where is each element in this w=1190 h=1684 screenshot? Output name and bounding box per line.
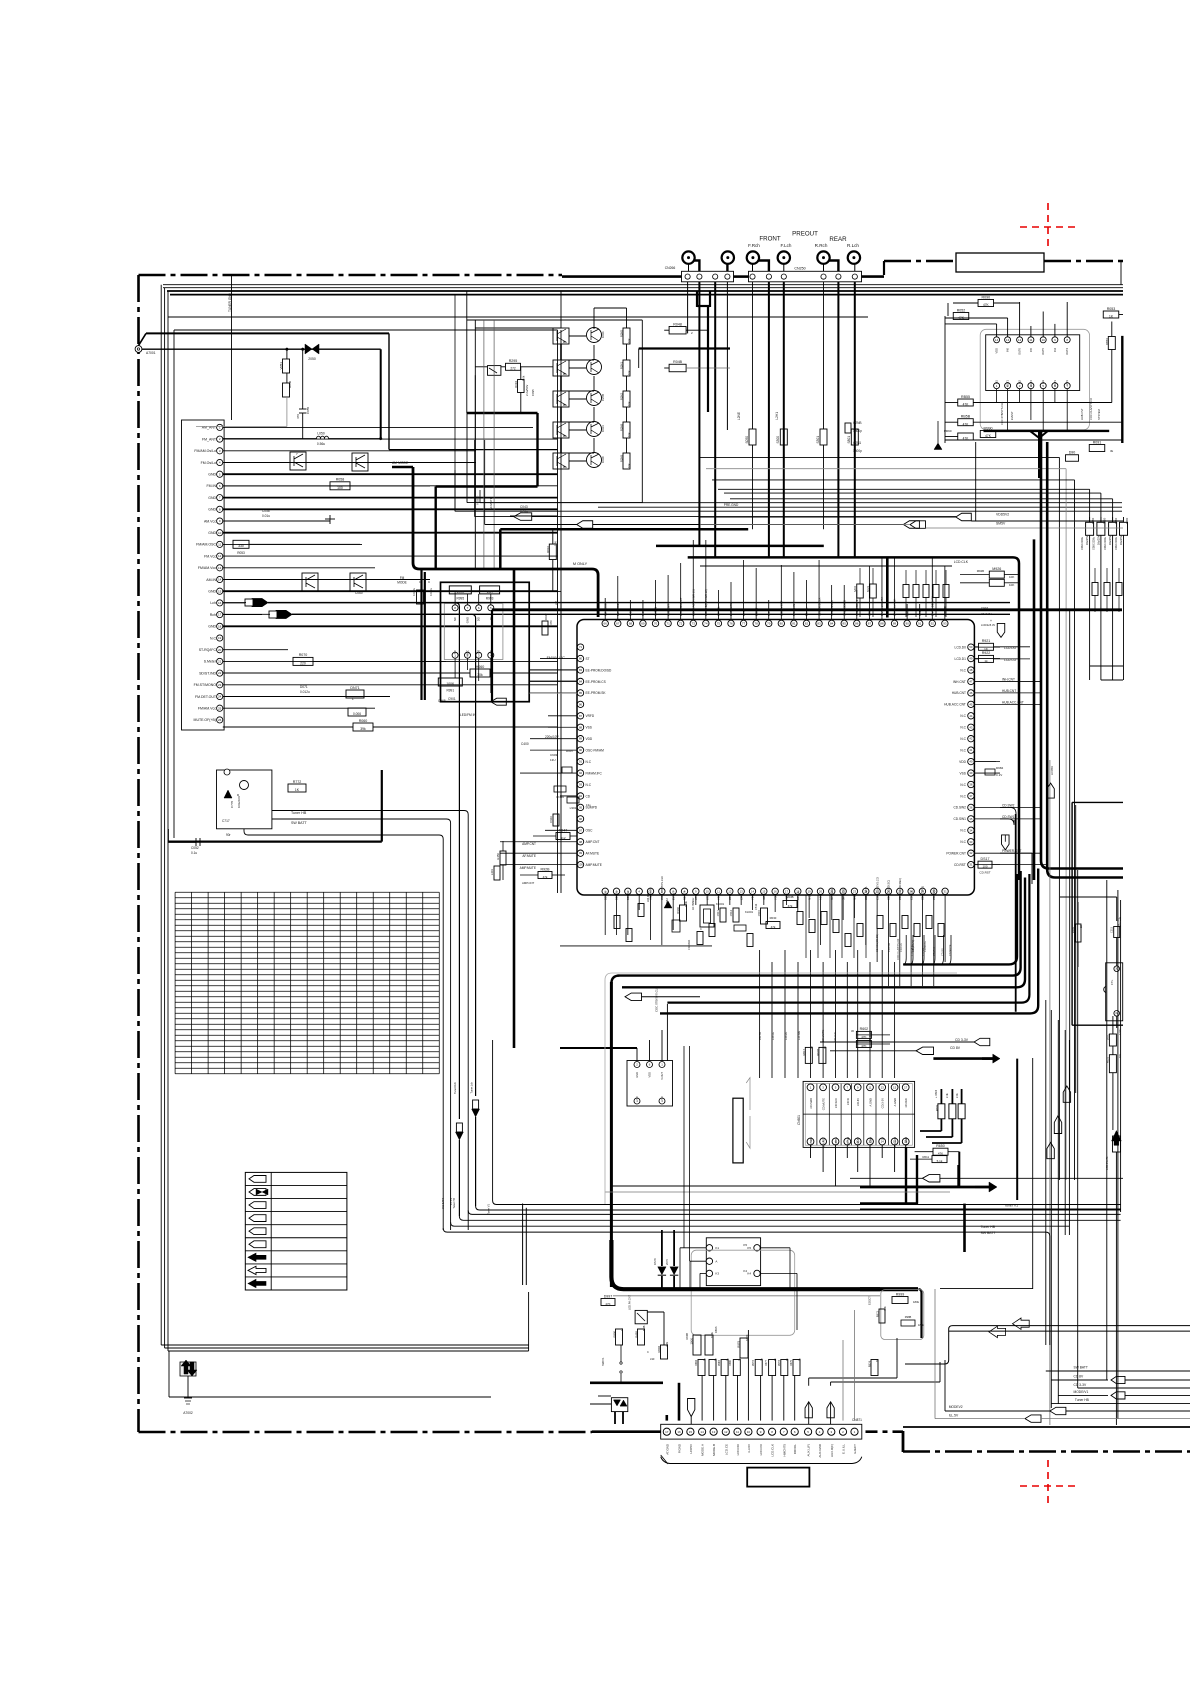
- svg-text:11: 11: [717, 889, 720, 893]
- svg-text:CD.SW2: CD.SW2: [809, 1097, 813, 1108]
- svg-text:LCD.CLK: LCD.CLK: [771, 1444, 775, 1457]
- svg-text:M ONLY: M ONLY: [573, 562, 588, 566]
- svg-text:88: 88: [579, 725, 583, 729]
- svg-text:0.022u: 0.022u: [412, 588, 416, 596]
- svg-text:91: 91: [918, 621, 922, 625]
- svg-text:42: 42: [969, 737, 973, 741]
- svg-text:RB81: RB81: [1105, 338, 1109, 345]
- svg-text:DRVOL: DRVOL: [793, 1444, 797, 1455]
- svg-text:D071: D071: [300, 685, 308, 689]
- svg-text:CD 8V: CD 8V: [950, 1046, 961, 1050]
- svg-text:Tuner.Lch: Tuner.Lch: [470, 1081, 474, 1093]
- svg-text:FM.DET.OUT: FM.DET.OUT: [195, 695, 217, 699]
- svg-text:33: 33: [969, 840, 973, 844]
- svg-text:13u: 13u: [586, 803, 591, 807]
- svg-text:C052: C052: [191, 846, 199, 850]
- svg-text:K1: K1: [715, 1246, 719, 1250]
- svg-text:97: 97: [579, 828, 583, 832]
- svg-text:21: 21: [218, 659, 222, 663]
- svg-text:AMP.CNT: AMP.CNT: [522, 881, 535, 885]
- svg-text:C060 2200u: C060 2200u: [1092, 536, 1095, 550]
- svg-text:COC.STB/SYS.CLK: COC.STB/SYS.CLK: [654, 987, 658, 1012]
- svg-text:C2N5: C2N5: [601, 393, 605, 401]
- svg-text:GND: GND: [466, 617, 470, 623]
- svg-text:R050: R050: [288, 380, 292, 388]
- svg-text:EVENT: EVENT: [1010, 411, 1014, 420]
- svg-text:CD.SW2: CD.SW2: [1002, 803, 1015, 807]
- svg-text:2050: 2050: [308, 357, 316, 361]
- svg-text:N.C: N.C: [960, 783, 966, 787]
- svg-text:S300: S300: [776, 436, 780, 444]
- svg-text:INH.CNT: INH.CNT: [953, 680, 966, 684]
- svg-text:17: 17: [785, 889, 789, 893]
- svg-text:CD.CLK: CD.CLK: [833, 1032, 837, 1042]
- svg-text:AMP.MUTE: AMP.MUTE: [586, 863, 602, 867]
- svg-text:11: 11: [1029, 338, 1032, 342]
- svg-text:R69B: R69B: [685, 1333, 689, 1340]
- svg-text:RB5B: RB5B: [961, 415, 971, 419]
- svg-text:CD.PS: CD.PS: [942, 948, 945, 956]
- svg-text:A7002: A7002: [183, 1411, 193, 1415]
- svg-text:272: 272: [510, 367, 516, 371]
- svg-text:R772: R772: [293, 780, 302, 784]
- svg-text:GND: GND: [208, 531, 216, 535]
- svg-text:SW BATT: SW BATT: [291, 821, 308, 825]
- svg-text:R972: R972: [876, 1310, 880, 1317]
- svg-text:CD.MUTE: CD.MUTE: [821, 1030, 825, 1042]
- svg-text:R2N5: R2N5: [620, 330, 624, 338]
- svg-text:30: 30: [851, 1029, 854, 1033]
- svg-text:M92B: M92B: [977, 569, 984, 573]
- svg-text:180k: 180k: [918, 1323, 924, 1327]
- svg-text:N.C: N.C: [586, 760, 592, 764]
- svg-text:K5: K5: [743, 1243, 747, 1247]
- svg-text:R940: R940: [676, 907, 680, 914]
- svg-text:C2N1: C2N1: [853, 441, 861, 445]
- svg-text:R69S: R69S: [714, 1326, 718, 1333]
- svg-text:D907: D907: [566, 749, 574, 753]
- svg-text:100u/10V: 100u/10V: [237, 796, 241, 808]
- svg-text:CD: CD: [586, 794, 591, 798]
- svg-text:R993: R993: [486, 597, 494, 601]
- svg-text:16: 16: [218, 601, 222, 605]
- svg-text:R2N2: R2N2: [620, 393, 624, 401]
- svg-text:82: 82: [805, 621, 809, 625]
- svg-text:R027: R027: [544, 613, 548, 620]
- svg-text:32.768kHz: 32.768kHz: [691, 897, 695, 910]
- svg-text:SW BATT: SW BATT: [981, 1231, 996, 1235]
- svg-text:EE-PROM.SK: EE-PROM.SK: [586, 691, 607, 695]
- svg-text:N.C: N.C: [210, 636, 217, 640]
- svg-text:R04B: R04B: [673, 360, 683, 364]
- svg-text:FM.Os/Lo: FM.Os/Lo: [201, 461, 216, 465]
- svg-text:19: 19: [808, 889, 812, 893]
- svg-text:KL601: KL601: [716, 902, 725, 906]
- svg-text:R921: R921: [982, 639, 991, 643]
- svg-text:NC: NC: [635, 1096, 639, 1100]
- svg-text:43: 43: [969, 725, 973, 729]
- svg-text:C400: C400: [521, 742, 529, 746]
- svg-text:80: 80: [780, 621, 784, 625]
- svg-text:12: 12: [728, 889, 732, 893]
- svg-text:C056: C056: [262, 509, 270, 513]
- svg-text:R053: R053: [1107, 307, 1116, 311]
- svg-text:14: 14: [700, 1430, 704, 1434]
- svg-text:47K: 47K: [963, 423, 970, 427]
- svg-text:HMCNT5: HMCNT5: [782, 1444, 786, 1457]
- svg-text:LCD.5V+FL: LCD.5V+FL: [1105, 1156, 1109, 1170]
- svg-text:15: 15: [762, 889, 766, 893]
- svg-text:CD.SW1: CD.SW1: [809, 1136, 813, 1147]
- svg-text:LCD.CO: LCD.CO: [759, 1443, 763, 1455]
- svg-text:Tuner HB: Tuner HB: [291, 811, 307, 815]
- svg-text:FM/AM.IFC: FM/AM.IFC: [586, 771, 603, 775]
- svg-text:FM.ST/MONO: FM.ST/MONO: [194, 683, 217, 687]
- svg-text:81: 81: [792, 621, 796, 625]
- svg-text:14: 14: [751, 889, 755, 893]
- svg-text:CD.TE: CD.TE: [758, 1032, 762, 1040]
- svg-text:N.C: N.C: [960, 737, 966, 741]
- svg-text:IN3: IN3: [1041, 379, 1045, 384]
- svg-text:CN266: CN266: [665, 266, 676, 270]
- svg-text:C043: C043: [520, 505, 528, 509]
- svg-text:2.0k: 2.0k: [956, 1093, 959, 1098]
- svg-text:LCD.CLK: LCD.CLK: [954, 560, 969, 564]
- svg-text:45: 45: [969, 702, 973, 706]
- svg-text:LCD5V: LCD5V: [1050, 766, 1054, 775]
- svg-text:R602: R602: [860, 1027, 869, 1031]
- svg-text:CD.3-3V: CD.3-3V: [881, 1098, 885, 1109]
- svg-text:Tuner HB: Tuner HB: [453, 1198, 456, 1209]
- svg-text:AT.GND: AT.GND: [665, 1443, 669, 1455]
- svg-text:17: 17: [218, 613, 222, 617]
- svg-text:CN871: CN871: [852, 1418, 862, 1422]
- svg-text:10A8: 10A8: [601, 456, 605, 463]
- svg-text:CD.MUTE: CD.MUTE: [924, 941, 927, 952]
- svg-text:R650: R650: [936, 1144, 945, 1148]
- svg-text:OSC: OSC: [586, 829, 594, 833]
- svg-text:SM5V: SM5V: [996, 522, 1006, 526]
- svg-text:0.012u: 0.012u: [300, 690, 310, 694]
- svg-text:VDD: VDD: [586, 737, 593, 741]
- svg-text:37: 37: [969, 794, 973, 798]
- svg-text:CD.LCH: CD.LCH: [893, 1137, 897, 1147]
- svg-text:VDD5V2: VDD5V2: [996, 513, 1009, 517]
- svg-text:FM/AM.Os/Lo: FM/AM.Os/Lo: [194, 449, 216, 453]
- svg-text:CD.SCK: CD.SCK: [834, 1098, 838, 1108]
- svg-text:13: 13: [1006, 338, 1010, 342]
- svg-text:NC: NC: [660, 1096, 664, 1100]
- svg-text:GND: GND: [208, 496, 216, 500]
- svg-text:SA02: SA02: [854, 585, 857, 592]
- svg-text:40: 40: [969, 760, 973, 764]
- svg-text:24: 24: [218, 695, 222, 699]
- svg-text:16: 16: [774, 889, 778, 893]
- svg-text:FM/AM.IFC: FM/AM.IFC: [547, 656, 566, 660]
- svg-text:FM_ANT: FM_ANT: [202, 437, 217, 441]
- svg-text:R98B: R98B: [718, 1360, 721, 1367]
- svg-text:K5: K5: [747, 1246, 751, 1250]
- svg-text:R603: R603: [935, 1104, 939, 1111]
- svg-text:CD.PS: CD.PS: [834, 1137, 838, 1145]
- svg-text:OUT1: OUT1: [1006, 379, 1010, 386]
- svg-text:FM.Vcc: FM.Vcc: [204, 554, 216, 558]
- svg-text:C717: C717: [222, 819, 230, 823]
- svg-text:31: 31: [969, 863, 973, 867]
- svg-text:R094: R094: [514, 381, 518, 388]
- svg-text:47k: 47k: [788, 904, 793, 908]
- svg-text:14: 14: [218, 578, 222, 582]
- svg-text:CN250: CN250: [794, 267, 805, 271]
- svg-text:R984: R984: [695, 1359, 698, 1366]
- svg-text:47k: 47k: [771, 925, 776, 929]
- svg-text:85: 85: [843, 621, 847, 625]
- svg-text:90r: 90r: [226, 833, 232, 837]
- svg-text:AM.Vcc: AM.Vcc: [204, 519, 216, 523]
- svg-text:15: 15: [689, 1430, 693, 1434]
- svg-text:3-3.0V: 3-3.0V: [747, 1444, 751, 1453]
- svg-text:VDD: VDD: [959, 760, 966, 764]
- svg-text:D997: D997: [604, 1294, 613, 1298]
- svg-text:NC: NC: [453, 617, 457, 621]
- svg-text:R058: R058: [336, 478, 345, 482]
- svg-text:R091: R091: [1093, 440, 1102, 444]
- svg-text:SW971: SW971: [601, 1357, 605, 1366]
- svg-text:23: 23: [218, 683, 222, 687]
- svg-text:39k: 39k: [360, 727, 366, 731]
- svg-text:GND: GND: [208, 508, 216, 512]
- svg-text:11: 11: [868, 1085, 871, 1089]
- svg-text:10k: 10k: [627, 432, 631, 437]
- svg-text:1k: 1k: [760, 1358, 764, 1361]
- svg-text:FM/AM.Vcc: FM/AM.Vcc: [198, 566, 216, 570]
- svg-text:20: 20: [819, 889, 823, 893]
- svg-text:88: 88: [880, 621, 884, 625]
- svg-text:17: 17: [904, 1085, 908, 1089]
- svg-text:AM MODE: AM MODE: [392, 461, 409, 465]
- svg-text:R617: R617: [802, 1049, 806, 1056]
- svg-text:LCD.DO: LCD.DO: [736, 1443, 740, 1455]
- svg-text:67: 67: [616, 621, 620, 625]
- svg-text:AMP.CNT: AMP.CNT: [586, 840, 600, 844]
- svg-text:CD.MUTE: CD.MUTE: [822, 1098, 826, 1110]
- svg-text:R49B: R49B: [635, 1331, 639, 1338]
- svg-text:L2H1: L2H1: [775, 412, 779, 420]
- svg-text:MODEV2: MODEV2: [949, 1405, 963, 1409]
- svg-text:R611: R611: [923, 1155, 930, 1159]
- svg-text:CN09: CN09: [556, 795, 564, 799]
- svg-text:100k: 100k: [710, 1331, 714, 1338]
- svg-text:CD.CLK: CD.CLK: [933, 946, 936, 956]
- svg-text:N.C: N.C: [960, 829, 966, 833]
- svg-text:R070: R070: [299, 653, 308, 657]
- svg-text:CD.DATA: CD.DATA: [688, 939, 691, 950]
- svg-text:AUX.GND: AUX.GND: [818, 1443, 822, 1458]
- svg-text:C514: C514: [729, 909, 733, 916]
- svg-text:Tuner HB: Tuner HB: [981, 1225, 996, 1229]
- svg-text:C211: C211: [1110, 926, 1114, 933]
- svg-text:50: 50: [969, 645, 973, 649]
- svg-text:20: 20: [218, 648, 222, 652]
- svg-text:31: 31: [944, 889, 948, 893]
- svg-text:47K: 47K: [963, 403, 970, 407]
- svg-text:1k: 1k: [620, 1328, 624, 1331]
- svg-text:66: 66: [604, 621, 608, 625]
- svg-text:1k: 1k: [785, 1358, 789, 1361]
- svg-text:10: 10: [747, 1430, 751, 1434]
- svg-text:93: 93: [943, 621, 947, 625]
- svg-text:10A4: 10A4: [601, 425, 605, 432]
- svg-text:AUX.R(F): AUX.R(F): [830, 1444, 834, 1457]
- svg-text:A: A: [715, 1259, 717, 1263]
- svg-text:1k: 1k: [713, 1358, 717, 1361]
- svg-text:83: 83: [579, 668, 583, 672]
- svg-text:77: 77: [742, 621, 746, 625]
- svg-text:R048: R048: [673, 322, 682, 326]
- svg-text:FM.IN: FM.IN: [206, 484, 216, 488]
- svg-text:69: 69: [641, 621, 645, 625]
- svg-text:D984: D984: [996, 766, 1004, 770]
- svg-text:L2NE: L2NE: [737, 412, 741, 420]
- svg-text:100K: 100K: [456, 590, 465, 594]
- svg-text:N.C: N.C: [960, 726, 966, 730]
- svg-text:CD.SI: CD.SI: [846, 1098, 850, 1105]
- svg-text:SW BATT: SW BATT: [442, 1198, 445, 1209]
- svg-text:R995: R995: [456, 597, 464, 601]
- svg-text:C: C: [428, 580, 431, 584]
- svg-text:IN5: IN5: [1029, 347, 1033, 352]
- svg-text:R2N8: R2N8: [620, 424, 624, 432]
- svg-text:COC.STB/SYS.CLK: COC.STB/SYS.CLK: [1000, 402, 1004, 425]
- svg-text:F.Lch: F.Lch: [781, 243, 792, 248]
- svg-text:HM.DATA: HM.DATA: [646, 890, 650, 902]
- svg-text:5.6k: 5.6k: [522, 375, 526, 381]
- svg-text:2.2k: 2.2k: [665, 1341, 669, 1347]
- svg-text:C060 2200u: C060 2200u: [1081, 536, 1084, 550]
- svg-text:L050: L050: [317, 432, 325, 436]
- svg-text:DO: DO: [477, 616, 481, 621]
- svg-text:D51L: D51L: [1106, 1033, 1110, 1040]
- svg-text:87: 87: [868, 621, 872, 625]
- svg-text:47K: 47K: [983, 303, 990, 307]
- svg-text:12: 12: [724, 1430, 728, 1434]
- svg-text:470: 470: [549, 620, 553, 625]
- svg-text:LCD.D0: LCD.D0: [955, 645, 967, 649]
- svg-text:180k: 180k: [913, 1300, 920, 1304]
- svg-text:220: 220: [300, 662, 306, 666]
- svg-text:CD.RST: CD.RST: [979, 871, 990, 875]
- svg-text:R651: R651: [1106, 1056, 1110, 1063]
- svg-text:96: 96: [579, 817, 583, 821]
- svg-text:R060: R060: [359, 719, 368, 723]
- svg-text:ST: ST: [555, 601, 559, 605]
- svg-text:92: 92: [579, 771, 583, 775]
- svg-text:ST-RQ/IFC: ST-RQ/IFC: [199, 648, 217, 652]
- svg-text:76: 76: [729, 621, 733, 625]
- svg-text:16u/25V: 16u/25V: [1109, 535, 1112, 545]
- svg-text:0.01u: 0.01u: [520, 510, 528, 514]
- svg-text:C.2V: C.2V: [996, 773, 1002, 777]
- svg-text:19: 19: [218, 636, 222, 640]
- svg-text:C060 2200u: C060 2200u: [1115, 536, 1118, 550]
- svg-text:98: 98: [579, 840, 583, 844]
- svg-text:23: 23: [853, 889, 857, 893]
- svg-text:18: 18: [218, 624, 222, 628]
- svg-text:89: 89: [893, 621, 897, 625]
- svg-text:2.2u/50V: 2.2u/50V: [525, 385, 529, 396]
- svg-text:S.Meter: S.Meter: [204, 660, 217, 664]
- svg-text:46: 46: [969, 691, 973, 695]
- svg-text:ILL 5V: ILL 5V: [450, 1198, 453, 1205]
- svg-text:10: 10: [1042, 338, 1046, 342]
- svg-text:N.C: N.C: [960, 668, 966, 672]
- svg-text:99: 99: [579, 851, 583, 855]
- svg-text:E.U.ILL: E.U.ILL: [842, 1444, 846, 1454]
- svg-text:49: 49: [969, 657, 973, 661]
- svg-text:47: 47: [969, 679, 973, 683]
- svg-text:100k: 100k: [684, 901, 688, 907]
- svg-text:R977: R977: [765, 1359, 768, 1366]
- svg-text:N.C: N.C: [960, 748, 966, 752]
- svg-text:S050: S050: [745, 436, 749, 444]
- svg-text:CD.MUTE: CD.MUTE: [949, 944, 952, 956]
- svg-text:HUB.ACC.CNT: HUB.ACC.CNT: [944, 703, 966, 707]
- svg-text:CN601: CN601: [797, 1115, 801, 1125]
- svg-text:EE-PROM.CS: EE-PROM.CS: [586, 680, 606, 684]
- svg-text:R97B: R97B: [778, 1360, 781, 1367]
- svg-text:1300p: 1300p: [853, 429, 862, 433]
- svg-text:SW BATT: SW BATT: [1074, 1366, 1088, 1370]
- svg-text:R947: R947: [559, 828, 568, 832]
- svg-text:CD.8V: CD.8V: [856, 1098, 860, 1106]
- svg-text:AF.MUTE: AF.MUTE: [522, 854, 536, 858]
- svg-text:75: 75: [717, 621, 721, 625]
- svg-text:C910: C910: [549, 816, 553, 823]
- svg-text:L401: L401: [490, 869, 494, 876]
- svg-text:12: 12: [1018, 338, 1022, 342]
- svg-text:68: 68: [629, 621, 633, 625]
- svg-text:73: 73: [692, 621, 696, 625]
- svg-text:2.4k: 2.4k: [946, 1093, 949, 1098]
- svg-text:R052: R052: [957, 308, 966, 312]
- svg-text:13U: 13U: [550, 758, 556, 762]
- svg-text:R094: R094: [657, 1346, 661, 1353]
- svg-text:KL601: KL601: [745, 910, 754, 914]
- svg-text:71: 71: [666, 621, 670, 625]
- svg-text:CD.RST: CD.RST: [954, 863, 966, 867]
- svg-text:VDD: VDD: [648, 1072, 652, 1078]
- svg-text:MUTE.OF(+B): MUTE.OF(+B): [194, 718, 216, 722]
- svg-text:RB55: RB55: [961, 395, 970, 399]
- svg-text:0.01u: 0.01u: [262, 514, 270, 518]
- svg-text:13: 13: [218, 566, 222, 570]
- svg-text:2: 2: [691, 331, 693, 335]
- svg-text:R032: R032: [546, 546, 550, 553]
- svg-text:30k: 30k: [477, 673, 483, 677]
- svg-text:100K: 100K: [446, 682, 455, 686]
- svg-text:Lch: Lch: [210, 601, 216, 605]
- svg-text:FM: FM: [400, 576, 405, 580]
- svg-text:86: 86: [855, 621, 859, 625]
- svg-text:10K: 10K: [1009, 575, 1014, 579]
- svg-text:D90: D90: [1069, 451, 1076, 455]
- svg-text:OUT4: OUT4: [1065, 347, 1069, 354]
- svg-text:IN1: IN1: [995, 379, 999, 384]
- svg-text:G.GND: G.GND: [904, 1137, 908, 1146]
- svg-text:SC21: SC21: [867, 585, 870, 592]
- svg-text:R97B: R97B: [752, 1360, 755, 1367]
- svg-text:IN6: IN6: [1006, 347, 1010, 352]
